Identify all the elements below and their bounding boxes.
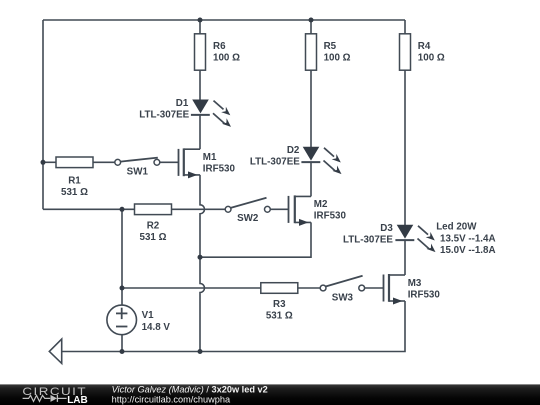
- R4 body: [400, 34, 411, 70]
- wire R5 top lead: [310, 20, 312, 34]
- M2 drain lead: [295, 195, 311, 197]
- junction: V1 branch / R3 row: [120, 286, 125, 291]
- svg-text:R5: R5: [324, 41, 337, 52]
- svg-text:531 Ω: 531 Ω: [61, 187, 88, 198]
- svg-text:15.0V --1.8A: 15.0V --1.8A: [440, 245, 496, 256]
- switch SW2: [225, 198, 288, 224]
- ground arrow terminal: [49, 339, 61, 363]
- wire R2 row left segment: [43, 208, 135, 210]
- M1 drain lead: [184, 148, 200, 150]
- svg-text:LTL-307EE: LTL-307EE: [250, 157, 300, 168]
- junction: top rail / R6 drain column: [198, 18, 203, 23]
- M1 source arrow: [188, 171, 198, 178]
- svg-text:IRF530: IRF530: [408, 289, 441, 300]
- svg-text:M1: M1: [203, 152, 217, 163]
- junction: bottom rail / M1 source column: [198, 349, 203, 354]
- D3 light emission arrows: [418, 226, 436, 252]
- wire SW2 right contact to M2 gate: [270, 208, 288, 210]
- svg-text:Led 20W: Led 20W: [436, 221, 477, 232]
- wire V1 branch top: [121, 209, 123, 305]
- svg-text:SW1: SW1: [127, 166, 149, 177]
- wire left rail down to R2 row: [42, 20, 44, 209]
- M3 source lead: [389, 300, 405, 302]
- svg-text:IRF530: IRF530: [203, 163, 236, 174]
- svg-text:LTL-307EE: LTL-307EE: [343, 235, 393, 246]
- R2 body: [135, 204, 172, 215]
- junction: bottom rail / V1 negative lead: [120, 349, 125, 354]
- logo diode symbol: [51, 395, 58, 402]
- resistor R3: [261, 283, 298, 322]
- D3 cathode bar: [395, 239, 414, 241]
- svg-text:D2: D2: [287, 145, 300, 156]
- svg-text:14.8 V: 14.8 V: [142, 322, 171, 333]
- SW1 right contact: [154, 159, 160, 165]
- wire R6 top lead: [199, 20, 201, 34]
- SW3 right contact: [359, 285, 365, 291]
- M3 source arrow: [393, 298, 403, 305]
- M2 source lead: [295, 221, 311, 223]
- svg-text:IRF530: IRF530: [314, 210, 347, 221]
- LED D2: [250, 145, 342, 174]
- SW1 lever arm: [121, 158, 158, 162]
- R6 body: [195, 34, 206, 70]
- wire D2 to M2 drain: [310, 162, 312, 196]
- wire R6 to D1: [199, 70, 201, 100]
- M2 source arrow: [299, 219, 309, 226]
- SW3 left contact: [320, 285, 326, 291]
- resistor R1: [56, 157, 93, 198]
- resistor R5: [306, 34, 351, 70]
- transistor M1: [179, 148, 236, 178]
- SW2 left contact: [225, 206, 231, 212]
- M3 channel bar: [388, 274, 390, 302]
- resistor R4: [400, 34, 445, 70]
- M1 channel bar: [183, 148, 185, 176]
- svg-text:R6: R6: [213, 41, 226, 52]
- svg-text:SW3: SW3: [332, 293, 354, 304]
- wire M1 source down with hops over R2 and R3 rows: [200, 175, 205, 352]
- svg-text:R2: R2: [147, 220, 160, 231]
- wire top rail: [43, 19, 405, 21]
- svg-text:531 Ω: 531 Ω: [266, 311, 293, 322]
- LED D1: [139, 98, 231, 127]
- M1 source lead: [184, 174, 200, 176]
- D2 cathode bar: [301, 161, 320, 163]
- CircuitLab logo: [22, 385, 87, 405]
- svg-text:R3: R3: [273, 299, 286, 310]
- voltage source V1: [107, 305, 170, 335]
- V1 plus sign: [116, 312, 127, 314]
- D1 cathode bar: [191, 114, 210, 116]
- switch SW1: [115, 158, 160, 178]
- V1 circle body: [107, 305, 137, 335]
- V1 minus sign: [116, 326, 127, 328]
- SW2 lever arm: [231, 198, 267, 208]
- svg-text:13.5V --1.4A: 13.5V --1.4A: [440, 234, 496, 245]
- svg-text:100 Ω: 100 Ω: [213, 53, 240, 64]
- wire D1 to M1 drain: [199, 115, 201, 149]
- wire R1 row: [43, 161, 56, 163]
- wire R4 top lead: [404, 20, 406, 34]
- D1 light emission arrows: [213, 101, 231, 127]
- wire R2 row right segment to SW2: [172, 208, 226, 210]
- svg-text:SW2: SW2: [237, 213, 259, 224]
- svg-text:M2: M2: [314, 199, 328, 210]
- junction: R2 row / V1 positive branch: [120, 207, 125, 212]
- D2 light emission arrows: [324, 148, 342, 174]
- transistor M3: [384, 274, 441, 305]
- svg-text:531 Ω: 531 Ω: [140, 232, 167, 243]
- svg-text:D1: D1: [176, 98, 189, 109]
- M3 drain lead: [389, 274, 405, 276]
- M1 gate bar: [178, 149, 180, 176]
- D3 anode triangle: [397, 225, 414, 239]
- svg-text:M3: M3: [408, 278, 422, 289]
- D1 anode triangle: [192, 100, 209, 114]
- switch SW3: [320, 276, 364, 304]
- svg-text:Victor Galvez (Madvic) / 3x20w: Victor Galvez (Madvic) / 3x20w led v2: [112, 385, 268, 395]
- svg-text:100 Ω: 100 Ω: [418, 53, 445, 64]
- svg-text:100 Ω: 100 Ω: [324, 53, 351, 64]
- wire R3 row from V1 branch: [122, 287, 261, 289]
- SW1 left contact: [115, 159, 121, 165]
- resistor R6: [195, 34, 241, 70]
- M2 channel bar: [294, 195, 296, 223]
- wire R1 to SW1: [93, 161, 115, 163]
- junction: top rail / R5 column: [309, 18, 314, 23]
- svg-text:R1: R1: [68, 176, 81, 187]
- D2 anode triangle: [303, 147, 320, 161]
- wire SW3 to M3 gate: [365, 287, 384, 289]
- M3 gate bar: [383, 275, 385, 302]
- wire R4 to D3: [404, 70, 406, 225]
- footer bar: [0, 384, 540, 405]
- resistor R2: [135, 204, 172, 243]
- svg-text:LTL-307EE: LTL-307EE: [139, 109, 189, 120]
- R1 body: [56, 157, 93, 168]
- wire V1 bottom lead: [121, 335, 123, 352]
- wire R5 to D2: [310, 70, 312, 147]
- junction: left rail / R1 row: [41, 160, 46, 165]
- wire R3 to SW3: [298, 287, 320, 289]
- wire D3 to M3 drain: [404, 240, 406, 275]
- svg-text:http://circuitlab.com/chuwpha: http://circuitlab.com/chuwpha: [112, 394, 231, 404]
- logo wordmark CIRCUIT: [22, 385, 87, 398]
- svg-text:R4: R4: [418, 41, 431, 52]
- wire M2 source to M1 column: [200, 222, 311, 257]
- logo resistor zigzag: [23, 395, 51, 401]
- R5 body: [306, 34, 317, 70]
- svg-text:V1: V1: [142, 310, 155, 321]
- transistor M2: [289, 195, 347, 226]
- wire SW1 to M1 gate: [160, 161, 179, 163]
- wire M3 source to bottom rail: [62, 301, 405, 352]
- R3 body: [261, 283, 298, 294]
- SW2 right contact: [265, 206, 271, 212]
- M2 gate bar: [288, 196, 290, 223]
- junction: M1 source column / M2 source wire: [198, 255, 203, 260]
- LED D3: [343, 221, 496, 256]
- svg-text:LAB: LAB: [67, 395, 88, 405]
- SW3 lever arm: [326, 276, 363, 287]
- svg-text:D3: D3: [380, 223, 393, 234]
